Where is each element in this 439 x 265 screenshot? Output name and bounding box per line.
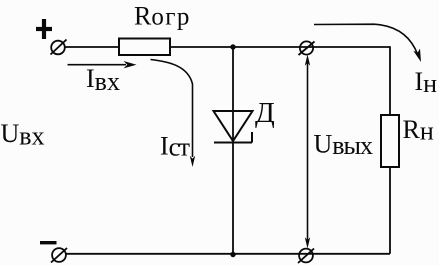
svg-text:Iст: Iст	[160, 131, 190, 161]
svg-text:Iн: Iн	[415, 67, 438, 98]
svg-text:Д: Д	[255, 97, 275, 129]
svg-text:Iвх: Iвх	[86, 64, 120, 96]
svg-text:Rогр: Rогр	[134, 2, 191, 31]
svg-text:Uвх: Uвх	[1, 119, 45, 150]
svg-text:Rн: Rн	[403, 115, 434, 146]
svg-text:Uвых: Uвых	[314, 129, 374, 160]
